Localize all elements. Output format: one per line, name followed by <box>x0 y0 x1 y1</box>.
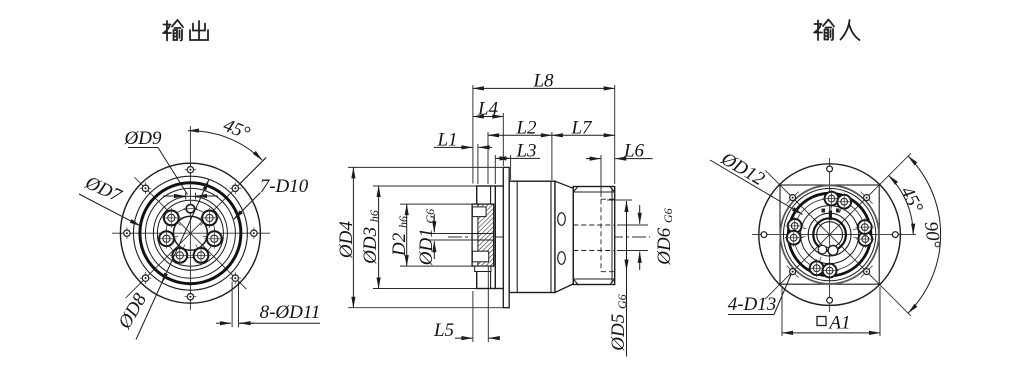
hidden recess D5 top <box>601 198 615 200</box>
4 rim holes <box>827 166 833 172</box>
flange plate <box>503 167 509 307</box>
dimension L3 <box>495 157 510 159</box>
adapter hole bottom <box>558 252 566 265</box>
dimension 8-D11 <box>216 282 320 328</box>
input cylinder chamfer line top <box>573 191 614 193</box>
small hole right <box>828 246 838 256</box>
central bore <box>173 216 207 250</box>
circle r21.4 <box>808 213 851 256</box>
flange ring circle <box>133 176 247 290</box>
bold circle r16.3 <box>813 218 846 251</box>
dimension 45deg (left view) <box>188 131 266 184</box>
hidden bore D6 bottom <box>573 250 614 252</box>
svg-text:7-D10: 7-D10 <box>260 176 309 197</box>
keyway notch top <box>472 207 486 217</box>
main axis centerline <box>448 236 650 238</box>
8 screws <box>823 190 841 208</box>
dimension L6 <box>586 158 601 160</box>
8 rim holes D11 <box>248 227 260 239</box>
radial spokes through screws (right) <box>786 191 874 279</box>
diagonal NW-SE <box>135 177 247 289</box>
keyway notch bottom <box>472 251 488 262</box>
hatch of shaft section <box>478 204 494 266</box>
hidden recess D5 wall <box>600 199 602 272</box>
svg-text:L7: L7 <box>570 118 593 139</box>
circle r45 <box>145 188 235 278</box>
outer flange circle <box>759 164 901 306</box>
circle r46 <box>783 188 875 280</box>
centerline vertical <box>829 158 831 312</box>
dimension D3 h6 <box>378 186 380 289</box>
small hole left <box>818 245 827 254</box>
hub bottom step to plate <box>495 288 503 290</box>
shaft section block <box>472 204 494 266</box>
outer flange circle <box>120 163 260 303</box>
dimension 45deg (right view) <box>889 176 914 235</box>
keyway nubs on inner circle <box>822 209 826 213</box>
4 corner holes D13 <box>787 192 799 204</box>
dimension L1 <box>434 146 472 148</box>
body ring line 2 <box>550 181 552 292</box>
bore line top <box>472 233 493 235</box>
dimension L4 <box>473 116 503 118</box>
svg-text:ØD9: ØD9 <box>124 128 162 149</box>
bolt circle of 8 screws <box>794 199 866 271</box>
centerline horizontal <box>752 234 916 236</box>
dimension D4 <box>352 167 354 307</box>
central bore <box>817 222 843 248</box>
spigot face line <box>477 204 479 266</box>
mounting square A1 <box>780 185 879 284</box>
input cylinder chamfer line bottom <box>573 278 614 280</box>
gearbox body <box>509 181 555 292</box>
svg-text:L8: L8 <box>532 71 554 92</box>
hub top step to plate <box>495 185 503 187</box>
small rect under block <box>475 266 491 271</box>
circle r37 <box>153 196 227 270</box>
hub rear face line <box>490 186 492 289</box>
top plain hole (D9) <box>186 205 194 213</box>
dimension L8 <box>473 87 615 89</box>
dimension L5 <box>455 337 472 339</box>
circle r33 <box>157 200 223 266</box>
svg-text:ØD4: ØD4 <box>336 221 357 259</box>
centerline vertical <box>189 126 191 310</box>
label A1 with square symbol <box>817 317 826 326</box>
dimension D6 G6 <box>639 205 641 224</box>
7 screws D10 <box>200 208 220 228</box>
svg-text:L1: L1 <box>436 130 457 151</box>
centerline horizontal <box>112 232 270 234</box>
body ring line 1 <box>516 181 518 292</box>
input cylinder <box>573 187 614 285</box>
hidden recess D5 bottom <box>601 271 615 273</box>
radial spokes through screws <box>157 199 223 264</box>
svg-text:4-D13: 4-D13 <box>728 294 777 315</box>
title: output (hand-drawn CJK) <box>163 20 208 41</box>
svg-text:L2: L2 <box>515 118 537 139</box>
dimension square A1 <box>782 287 880 336</box>
extension lines <box>348 85 648 342</box>
bolt circle of 7 screws <box>166 209 215 258</box>
dimension D1 G6 <box>433 214 435 232</box>
dimension 90deg (right view) <box>908 156 941 313</box>
adapter hole top <box>558 213 566 226</box>
pilot bold circle D7 <box>140 183 241 284</box>
diagonal NE-SW <box>765 153 911 299</box>
svg-text:90°: 90° <box>920 220 944 249</box>
pilot bold circle <box>788 193 871 276</box>
svg-text:L4: L4 <box>477 99 499 120</box>
inscribed circle <box>780 185 879 284</box>
circle r29 <box>801 206 859 264</box>
dimension L2 <box>488 134 552 136</box>
tapered adapter ring <box>555 181 573 292</box>
svg-text:L6: L6 <box>623 141 645 162</box>
svg-text:A1: A1 <box>827 313 850 334</box>
diagonal NW-SE <box>765 170 911 316</box>
dimension L7 <box>552 134 615 136</box>
input cylinder corner chamfers <box>573 187 614 285</box>
title: input (hand-drawn CJK) <box>814 20 860 41</box>
input cylinder face ring line <box>611 188 613 283</box>
svg-text:L3: L3 <box>515 141 536 162</box>
svg-text:L5: L5 <box>433 320 454 341</box>
hidden bore D6 top <box>573 224 614 226</box>
diagonal NE-SW <box>126 158 266 298</box>
output hub outer <box>477 186 496 289</box>
dimension D2 h6 <box>406 204 408 266</box>
dimension D5 G6 <box>626 201 628 357</box>
svg-text:8-ØD11: 8-ØD11 <box>260 302 321 323</box>
bore line bottom <box>472 239 493 241</box>
